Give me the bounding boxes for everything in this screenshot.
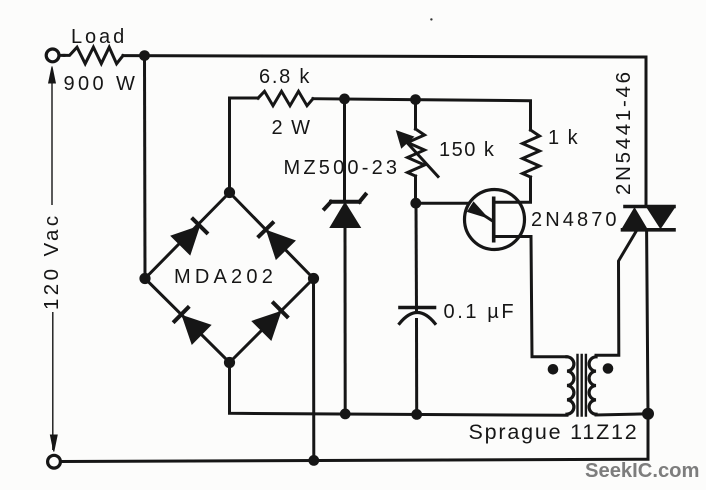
wire capacitor bottom [415,320,418,415]
junction bridge right corner [308,273,319,284]
junction 6.8k / zener [339,94,350,105]
transformer T1 left winding [567,357,574,414]
resistor R2 1k zigzag [523,130,540,177]
wire bottom dc bus [230,363,568,416]
wire transformer right bus [596,414,648,415]
label 0.1 uF [444,301,517,324]
junction bridge left corner [139,273,150,284]
junction bridge right / bottom bus [308,455,319,466]
potentiometer arrow [397,131,439,177]
wire 1k bottom to UJT base2 [496,177,531,202]
wire base1 lead [496,237,568,357]
label 1 k [548,127,579,150]
junction zener / dc bus [340,409,351,420]
junction triac / transformer bus [642,408,654,420]
wire 6.8k to 1k top [313,99,531,130]
label Sprague 11Z12 [469,420,639,445]
label MZ500-23 [284,157,401,180]
watermark SeekIC.com [585,460,699,483]
bridge diode D2 top-right [258,222,295,259]
wire bridge top riser [230,98,259,193]
wire zener bottom [344,227,347,413]
label 2 W [272,117,312,140]
dimension line 120 Vac [49,67,58,452]
capacitor C1 0.1uF plates [400,308,436,324]
wire top bus [59,55,646,206]
junction bridge top corner [224,187,235,198]
bridge diode D4 bottom-right [253,302,288,340]
transformer T1 right winding [589,357,596,414]
wire triac main drop [647,231,648,414]
label 2N5441-46 vertical [612,69,636,195]
junction top bus / bridge left [139,50,150,61]
bridge diode D3 bottom-left [173,306,210,343]
potentiometer R3 150k zigzag [408,129,425,176]
wire emitter [416,203,494,221]
transistor Q1 2N4870 circle [465,190,525,250]
bridge rectifier MDA202 outline [145,193,314,363]
wire 150k branch top [414,100,417,129]
speck artifact [430,18,432,20]
label Load [71,26,127,49]
junction 150k / emitter / capacitor [410,198,421,209]
wire left drop to bridge [143,56,147,279]
wire 150k bottom to emitter junction [414,176,417,204]
junction 6.8k / 150k [410,94,421,105]
label 6.8 k [259,66,311,89]
resistor R Load zigzag [64,47,123,64]
transformer core [578,355,586,416]
triac Q2 2N5441-46 [623,207,675,230]
resistor R1 6.8k zigzag [258,91,313,105]
label 150 k [439,139,495,162]
wire capacitor branch top [415,203,419,311]
wire bridge right drop [312,279,315,461]
transformer phase dot right [603,363,614,374]
junction capacitor / dc bus [411,409,422,420]
wire triac gate [596,232,636,356]
terminal bottom-left [48,455,61,468]
transistor base bar [492,197,496,243]
label 120 Vac vertical [40,212,64,310]
transformer phase dot left [548,364,559,375]
bridge diode D1 top-left [172,218,208,254]
terminal top-left [46,49,59,62]
emitter arrowhead [468,203,487,218]
label MDA202 [174,266,277,289]
label 2N4870 [531,209,620,232]
wire zener branch top [343,99,346,200]
label 900 W [64,73,139,96]
wire bottom return bus [61,414,648,462]
zener diode MZ500-23 [325,195,366,228]
junction bridge bottom corner [224,357,235,368]
